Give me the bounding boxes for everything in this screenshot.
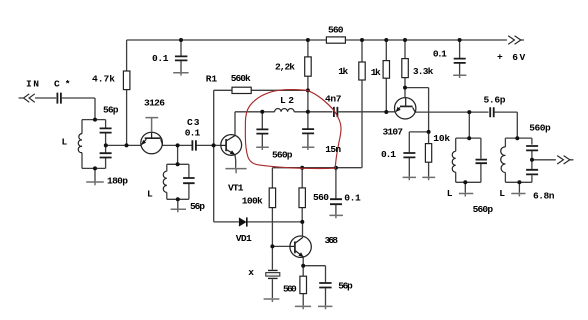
svg-text:L: L xyxy=(447,188,453,199)
svg-text:560p: 560p xyxy=(473,204,494,215)
svg-text:x: x xyxy=(248,267,254,278)
svg-text:1k: 1k xyxy=(338,66,348,77)
svg-text:L 2: L 2 xyxy=(280,95,294,106)
svg-text:3126: 3126 xyxy=(144,97,165,108)
svg-text:4.7k: 4.7k xyxy=(92,73,115,84)
svg-text:56p: 56p xyxy=(338,280,353,291)
svg-text:56p: 56p xyxy=(190,201,205,212)
svg-text:560p: 560p xyxy=(529,123,551,134)
svg-text:4n7: 4n7 xyxy=(325,93,342,104)
svg-text:56p: 56p xyxy=(103,104,119,115)
svg-text:5.6p: 5.6p xyxy=(484,95,506,106)
svg-text:L: L xyxy=(147,188,153,199)
svg-text:560: 560 xyxy=(283,283,297,294)
svg-text:1k: 1k xyxy=(371,67,381,78)
svg-text:10k: 10k xyxy=(433,133,450,144)
svg-text:+: + xyxy=(497,51,503,62)
svg-text:0.1: 0.1 xyxy=(381,149,396,160)
svg-text:L: L xyxy=(62,137,68,148)
svg-text:0.1: 0.1 xyxy=(344,192,361,203)
svg-text:3.3k: 3.3k xyxy=(413,66,434,77)
svg-text:368: 368 xyxy=(325,235,339,246)
svg-text:3107: 3107 xyxy=(383,127,404,138)
svg-text:R1: R1 xyxy=(206,73,218,84)
svg-text:VT1: VT1 xyxy=(228,182,244,193)
svg-text:0.1: 0.1 xyxy=(152,53,169,64)
svg-text:C3: C3 xyxy=(187,117,200,128)
svg-text:560k: 560k xyxy=(231,73,251,84)
svg-text:560p: 560p xyxy=(272,149,293,160)
svg-text:560: 560 xyxy=(328,24,344,35)
svg-text:100k: 100k xyxy=(242,195,263,206)
svg-text:IN: IN xyxy=(26,78,39,89)
svg-text:180p: 180p xyxy=(107,175,128,186)
svg-text:6.8n: 6.8n xyxy=(533,190,555,201)
svg-text:2,2k: 2,2k xyxy=(275,61,295,72)
svg-text:C *: C * xyxy=(54,78,71,89)
svg-text:15n: 15n xyxy=(325,144,341,155)
svg-text:L: L xyxy=(499,188,505,199)
svg-text:6V: 6V xyxy=(512,52,525,63)
svg-text:0.1: 0.1 xyxy=(185,128,201,139)
svg-text:VD1: VD1 xyxy=(236,233,252,244)
svg-text:560: 560 xyxy=(313,192,329,203)
svg-text:0.1: 0.1 xyxy=(433,48,447,59)
